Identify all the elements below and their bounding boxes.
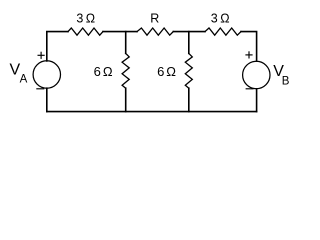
resistor R5 6 ohm vertical zigzag xyxy=(185,53,192,88)
label 6 ohm for R4 xyxy=(94,64,113,79)
VA minus sign xyxy=(36,88,44,90)
label VA xyxy=(10,61,28,85)
svg-text:R: R xyxy=(150,11,159,25)
svg-text:Ω: Ω xyxy=(166,64,176,79)
label 3 ohm for R3 xyxy=(211,12,230,26)
resistor R zigzag xyxy=(137,28,173,35)
VB plus sign xyxy=(245,51,252,58)
wire bottom rail xyxy=(47,111,257,113)
svg-text:Ω: Ω xyxy=(86,12,95,26)
voltage source VB circle xyxy=(243,61,270,88)
wire between R and node 2 xyxy=(173,31,205,33)
svg-text:3: 3 xyxy=(211,12,218,26)
resistor R1 3 ohm zigzag xyxy=(68,28,103,35)
svg-text:A: A xyxy=(20,73,28,85)
svg-text:3: 3 xyxy=(76,12,83,26)
label 3 ohm for R1 xyxy=(76,12,95,26)
label VB xyxy=(273,63,290,87)
wire top-right segment xyxy=(241,32,257,61)
resistor R4 6 ohm vertical zigzag xyxy=(122,53,129,88)
wire top-left segment xyxy=(47,32,68,61)
wire branch 1 top xyxy=(125,32,127,54)
svg-text:B: B xyxy=(282,75,290,87)
wire between R1 and node 1 xyxy=(103,31,137,33)
svg-text:6: 6 xyxy=(157,64,164,79)
svg-text:6: 6 xyxy=(94,64,101,79)
resistor R3 3 ohm zigzag xyxy=(205,28,241,35)
wire branch 1 bottom xyxy=(125,88,127,111)
wire branch 2 bottom xyxy=(188,88,190,111)
label 6 ohm for R5 xyxy=(157,64,176,79)
wire branch 2 top xyxy=(188,32,190,54)
wire VA bottom to ground rail xyxy=(46,88,48,111)
svg-text:Ω: Ω xyxy=(103,64,113,79)
voltage source VA circle xyxy=(33,61,60,88)
VB minus sign xyxy=(246,88,254,90)
svg-text:Ω: Ω xyxy=(220,12,229,26)
wire VB bottom to ground rail xyxy=(256,89,258,112)
VA plus sign xyxy=(38,52,45,59)
